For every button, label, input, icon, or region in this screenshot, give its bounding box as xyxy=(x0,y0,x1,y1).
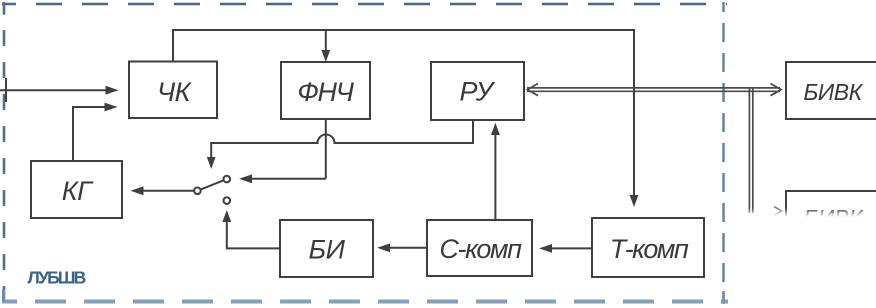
svg-text:БИВК: БИВК xyxy=(803,79,863,105)
bus РУ-БИВК double line bidirectional xyxy=(527,84,781,96)
block Т-комп xyxy=(592,218,704,277)
boundary dashed box top (net ЛУБШВ enclosure) xyxy=(2,4,727,15)
wire С-комп to РУ xyxy=(491,123,500,220)
boundary dashed box left xyxy=(3,2,6,305)
wire Т-комп to С-комп xyxy=(539,244,592,253)
wire ЧК top to Т-комп (top rail) xyxy=(173,30,638,207)
svg-text:Т-комп: Т-комп xyxy=(610,234,689,264)
block ЧК xyxy=(129,62,217,119)
wire switch common to КГ xyxy=(131,186,195,195)
wire ФНЧ to switch top contact xyxy=(239,119,326,183)
svg-text:РУ: РУ xyxy=(459,77,495,107)
wire branch top rail to ФНЧ xyxy=(321,30,330,62)
switch SW1 blade xyxy=(201,180,224,189)
boundary dashed box right xyxy=(722,2,724,304)
bus branch down to БИВК 2 double line xyxy=(749,88,781,216)
wire РУ to switch control with hop over ФНЧ wire xyxy=(207,120,473,169)
svg-text:ЧК: ЧК xyxy=(157,77,193,107)
svg-text:ЛУБШВ: ЛУБШВ xyxy=(28,268,86,288)
svg-text:ФНЧ: ФНЧ xyxy=(297,77,354,107)
wire БИ to switch bottom contact xyxy=(222,210,280,248)
switch SW1 bottom contact xyxy=(224,197,231,204)
wire С-комп to БИ xyxy=(377,243,427,252)
switch SW1 top contact xyxy=(224,176,231,183)
block РУ xyxy=(431,62,524,120)
svg-text:С-комп: С-комп xyxy=(439,234,522,264)
block БИ xyxy=(280,220,373,277)
block КГ xyxy=(31,161,122,218)
block ФНЧ xyxy=(281,62,370,119)
boundary dashed box bottom xyxy=(2,289,728,302)
wire КГ to ЧК feedback xyxy=(73,103,118,161)
block БИВК xyxy=(786,62,876,119)
block С-комп xyxy=(427,220,532,276)
block БИВК 2 (faded lower right) xyxy=(733,191,876,308)
svg-text:БИ: БИ xyxy=(309,235,346,265)
switch SW1 common contact xyxy=(194,188,201,195)
svg-text:КГ: КГ xyxy=(62,176,94,206)
wire input port to ЧК with tick xyxy=(0,78,119,102)
